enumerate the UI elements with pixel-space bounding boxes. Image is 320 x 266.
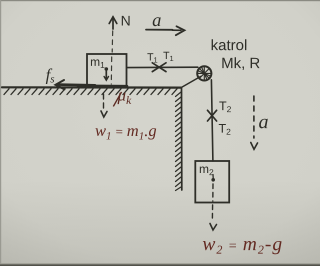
- pulley bracket to table corner: [182, 77, 201, 88]
- svg-text:a: a: [152, 11, 161, 31]
- dashed line below m2 dot: [212, 184, 214, 201]
- tension cut X on horizontal rope: [152, 63, 166, 72]
- rope pulley to m2: [211, 80, 213, 161]
- center of mass dot m1: [105, 67, 109, 71]
- dashed line below m1 to w1 arrow: [103, 94, 105, 109]
- dashed axis through m1 (N line): [111, 31, 114, 52]
- ground hatching: [4, 89, 177, 95]
- w2 arrowhead: [210, 224, 217, 231]
- block m1 bottom thick edge: [78, 85, 127, 88]
- photo edge left: [0, 0, 1, 266]
- center of mass dot m2: [211, 178, 215, 182]
- svg-text:w2 = m2-g: w2 = m2-g: [202, 234, 283, 257]
- w1 arrowhead: [101, 111, 107, 117]
- acceleration arrow (top): [146, 29, 173, 31]
- tension cut X on vertical rope: [208, 110, 217, 121]
- rope m1 to pulley: [127, 66, 198, 68]
- svg-text:a: a: [258, 111, 268, 133]
- block m1: [87, 54, 127, 86]
- weight arrow inside m1: [105, 71, 107, 80]
- photo edge top: [0, 0, 320, 1]
- svg-text:Mk, R: Mk, R: [221, 55, 260, 72]
- svg-text:N: N: [121, 12, 131, 28]
- pulley wheel: [197, 66, 211, 80]
- acceleration dashed arrow (right side): [253, 96, 255, 138]
- mu tail stroke: [113, 92, 121, 107]
- ground surface line: [2, 86, 181, 88]
- table edge hatching: [176, 92, 182, 191]
- normal force N arrow: [112, 17, 114, 29]
- bottom shading: [0, 180, 320, 266]
- photo edge bottom: [0, 263, 320, 264]
- table vertical edge: [181, 88, 183, 191]
- block m2: [195, 161, 229, 203]
- svg-text:katrol: katrol: [211, 37, 248, 54]
- friction arrow fs: [57, 83, 95, 86]
